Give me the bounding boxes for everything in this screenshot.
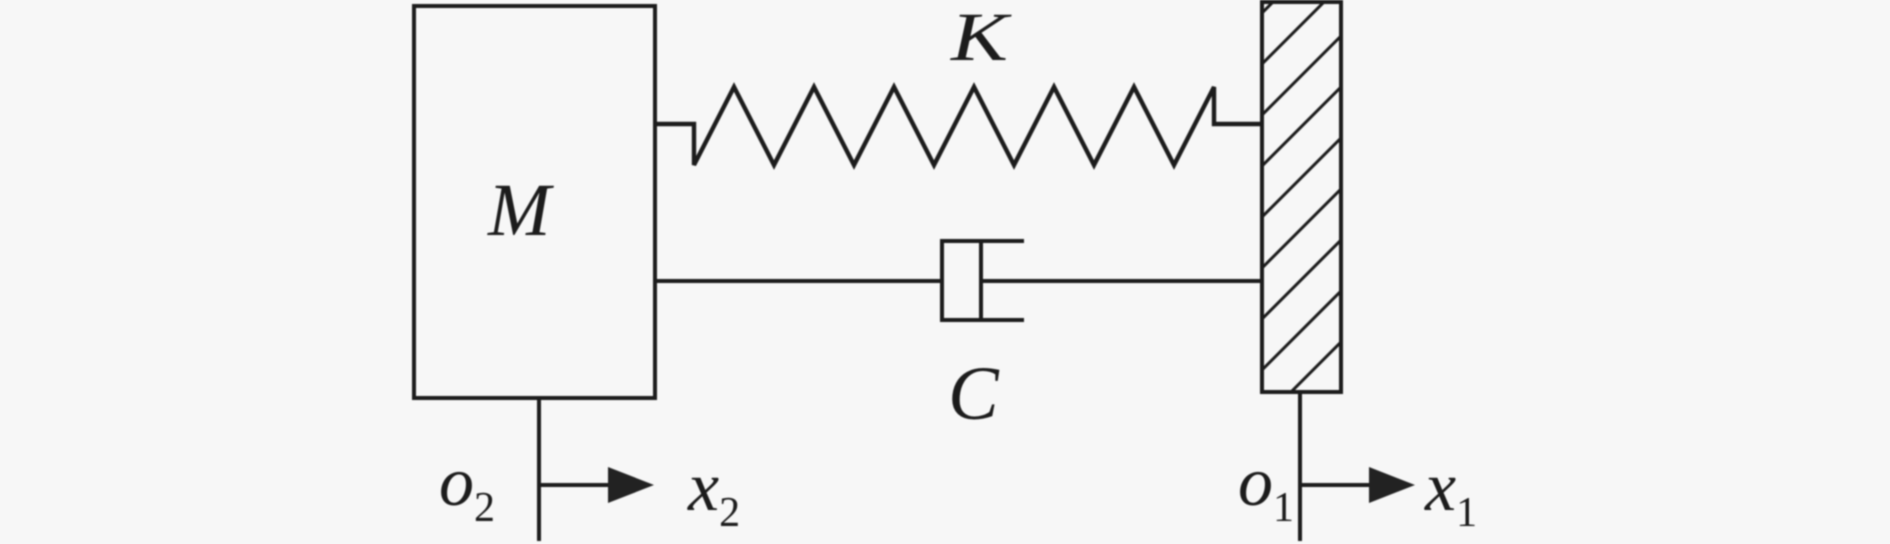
- svg-text:M: M: [487, 169, 554, 252]
- svg-text:K: K: [950, 0, 1012, 75]
- x1 arrow head: [1369, 467, 1415, 503]
- damper C left rod: [655, 279, 942, 283]
- wall hatching: [1252, 0, 1352, 431]
- x1 arrow shaft: [1300, 483, 1379, 487]
- damper C piston rod: [981, 279, 1262, 283]
- svg-text:C: C: [948, 352, 1000, 436]
- mass M body: [414, 6, 655, 398]
- wall body: [1262, 2, 1341, 392]
- spring K: [655, 87, 1262, 165]
- x2 arrow head: [608, 467, 654, 503]
- axis line below wall: [1298, 392, 1302, 541]
- axis line below mass: [537, 398, 541, 541]
- damper C cylinder: [942, 241, 1024, 320]
- x2 arrow shaft: [539, 483, 616, 487]
- damper C piston: [979, 242, 983, 319]
